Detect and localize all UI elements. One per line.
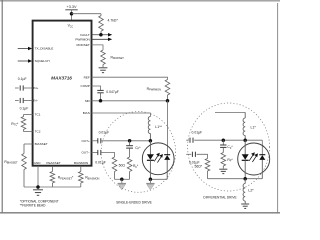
svg-text:**FERRITE BEAD: **FERRITE BEAD xyxy=(20,204,46,208)
svg-text:BIASMON: BIASMON xyxy=(74,161,88,165)
pin PWRMON label xyxy=(75,37,89,41)
laser emission arrows single-ended xyxy=(154,153,163,163)
pin PWRMON output arrow xyxy=(92,38,113,41)
label 4.7kOhm xyxy=(108,18,119,22)
pin FAULT label xyxy=(80,33,90,37)
inductor L2 differential xyxy=(243,179,245,204)
resistor RF single-ended xyxy=(127,157,132,179)
pin IN- label xyxy=(33,99,38,103)
svg-text:CF*: CF* xyxy=(227,145,233,150)
svg-text:OUT+: OUT+ xyxy=(81,139,90,143)
svg-text:+3.3V: +3.3V xyxy=(66,5,76,9)
pin TX_DISABLE label xyxy=(35,47,54,51)
resistor 50 Ohm termination xyxy=(112,157,117,179)
label RBIASSET xyxy=(4,160,18,165)
pin GND label xyxy=(34,161,42,165)
svg-text:FAULT: FAULT xyxy=(80,33,90,37)
pin TC1 label xyxy=(35,113,41,117)
dashed circle differential drive xyxy=(188,103,270,191)
svg-text:MAX3716: MAX3716 xyxy=(51,76,72,81)
wire differential PD drop xyxy=(261,140,263,155)
pin BIAS wire xyxy=(92,113,151,117)
node differential CF junction xyxy=(222,138,226,142)
svg-text:PWRMON: PWRMON xyxy=(75,37,89,41)
label RF* differential xyxy=(227,158,233,163)
svg-text:IN−: IN− xyxy=(33,99,38,103)
pin VCC label xyxy=(68,24,74,29)
label OUT+ cap 0.01uF xyxy=(99,131,110,135)
wire VCC feeder differential xyxy=(215,111,245,113)
label CF* differential xyxy=(227,145,233,150)
label C3 0.047uF xyxy=(106,90,119,94)
svg-text:RTC*: RTC* xyxy=(11,122,19,127)
pin SQUELCH label xyxy=(35,59,50,63)
svg-text:0.01µF: 0.01µF xyxy=(99,131,110,135)
node GND junction xyxy=(36,185,40,189)
svg-text:RF*: RF* xyxy=(133,164,139,169)
node +3.3V junction xyxy=(70,12,74,16)
laser package circle differential xyxy=(238,143,270,175)
svg-text:0.1µF: 0.1µF xyxy=(18,77,27,81)
svg-text:RMODSET: RMODSET xyxy=(111,55,125,60)
ground main GND symbol xyxy=(33,190,43,196)
dashed circle single-ended drive xyxy=(101,111,175,192)
footnote optional component xyxy=(20,199,59,203)
resistor RMODSET xyxy=(92,45,106,67)
svg-text:MD: MD xyxy=(85,99,91,103)
pin BIASMON label xyxy=(74,161,88,165)
power +3.3V supply symbol xyxy=(65,5,77,10)
label OUT- cap 0.01uF xyxy=(95,161,106,165)
label 0.01uF differential bottom xyxy=(189,160,200,164)
svg-text:50Ω: 50Ω xyxy=(119,163,126,167)
resistor RF differential xyxy=(221,153,226,169)
wire RF 50ohm bottoms xyxy=(115,178,130,180)
monitor photodiode D2 xyxy=(164,155,170,180)
svg-text:0.047µF: 0.047µF xyxy=(106,90,119,94)
pin OUT+ label xyxy=(81,139,90,143)
label RPWRMON xyxy=(147,87,161,92)
pin IN+ label xyxy=(33,86,38,90)
pin MD wire xyxy=(92,100,168,102)
node OUT+ CF junction xyxy=(128,139,132,143)
label 56 Ohm xyxy=(195,164,203,168)
pin GND wire xyxy=(37,166,39,190)
pin OUT- wire and capacitor 0.01uF xyxy=(92,150,115,157)
svg-text:RBIASSET: RBIASSET xyxy=(4,160,18,165)
resistor RBIASSET xyxy=(22,144,27,187)
svg-text:56Ω*: 56Ω* xyxy=(195,164,203,168)
label 0.01uF differential top xyxy=(192,131,203,135)
node OUT+ laser junction xyxy=(149,139,153,143)
resistor RPWRMON xyxy=(165,80,170,101)
label C1 0.1uF xyxy=(18,77,27,81)
pin BIASSET wire xyxy=(24,143,33,145)
wire L1 to laser anode xyxy=(149,134,151,141)
label L2* xyxy=(248,189,254,193)
label L1* xyxy=(251,125,257,129)
chassis ground termination xyxy=(118,184,126,190)
svg-text:TC1: TC1 xyxy=(35,113,41,117)
pin TC1 wire xyxy=(24,114,33,116)
svg-text:4.7kΩ*: 4.7kΩ* xyxy=(108,18,119,22)
caption single-ended drive xyxy=(116,201,153,205)
label C2 0.1uF xyxy=(20,106,29,110)
wire MD to photodiode xyxy=(167,101,169,155)
capacitor 0.01uF differential top xyxy=(186,138,262,143)
svg-text:RPEAKSET*: RPEAKSET* xyxy=(58,176,74,181)
laser diode differential xyxy=(242,140,249,179)
svg-text:L1*: L1* xyxy=(251,125,257,129)
pin COMP label xyxy=(81,84,90,88)
laser emission arrows differential xyxy=(249,152,258,162)
svg-text:0.01µF: 0.01µF xyxy=(192,131,203,135)
label RF* xyxy=(133,164,139,169)
label RMODSET xyxy=(111,55,125,60)
pin FAULT output arrow xyxy=(92,33,113,36)
resistor 4.7kOhm pullup xyxy=(99,14,104,35)
pin MODSET label xyxy=(77,43,90,47)
laser package circle single-ended xyxy=(142,143,174,175)
capacitor 0.01uF differential bottom xyxy=(186,152,207,159)
node termination ground junction xyxy=(120,178,124,182)
ground L2 differential xyxy=(241,204,249,208)
wire to chassis ground left xyxy=(121,179,123,183)
resistor RBIASMON xyxy=(79,166,84,187)
ground RMODSET symbol xyxy=(99,68,108,73)
label CF* xyxy=(135,146,141,151)
figure border frame xyxy=(0,0,280,213)
monitor photodiode differential xyxy=(259,155,265,179)
svg-text:RF*: RF* xyxy=(227,158,233,163)
pin MD label xyxy=(85,99,91,103)
resistor 56 Ohm differential xyxy=(205,159,210,179)
pin TX_DISABLE input arrow xyxy=(18,47,33,50)
svg-text:MODSET: MODSET xyxy=(77,43,90,47)
pin TC2 wire xyxy=(24,131,33,133)
svg-text:OUT−: OUT− xyxy=(81,151,90,155)
resistor RPEAKSET xyxy=(50,166,55,187)
svg-text:0.01µF: 0.01µF xyxy=(95,161,106,165)
label RPEAKSET xyxy=(58,176,74,181)
pin TC2 label xyxy=(35,130,41,134)
svg-text:L2*: L2* xyxy=(248,189,254,193)
svg-text:PEAKSET: PEAKSET xyxy=(46,161,60,165)
svg-text:BIASSET: BIASSET xyxy=(35,142,48,146)
node differential laser junction xyxy=(243,138,247,142)
pin SQUELCH input arrow xyxy=(18,59,33,62)
svg-text:SINGLE-ENDED DRIVE: SINGLE-ENDED DRIVE xyxy=(116,201,153,205)
svg-text:REF: REF xyxy=(84,75,90,79)
pin REF wire xyxy=(92,77,168,79)
svg-text:VCC: VCC xyxy=(68,24,74,29)
svg-text:CF*: CF* xyxy=(135,146,141,151)
wire +3.3V rail to R1 xyxy=(72,13,102,15)
inductor L1 differential xyxy=(243,112,245,140)
capacitor C3 0.047uF on COMP xyxy=(97,90,103,100)
svg-text:L1**: L1** xyxy=(155,125,162,129)
caption differential drive xyxy=(203,195,236,199)
wire to chassis ground right xyxy=(149,179,151,183)
svg-text:RPWRMON: RPWRMON xyxy=(147,87,161,92)
pin OUT+ wire and capacitor 0.01uF xyxy=(92,138,151,143)
wire +3.3V to VCC pin xyxy=(71,10,73,21)
wire laser cathode rail xyxy=(150,178,167,180)
IC U1 MAX3716 laser driver body xyxy=(33,21,92,166)
node COMP cap junction xyxy=(99,99,103,103)
svg-text:DIFFERENTIAL DRIVE: DIFFERENTIAL DRIVE xyxy=(203,195,236,199)
label RTC xyxy=(11,122,19,127)
capacitor CF differential xyxy=(220,140,226,152)
pin BIAS label xyxy=(83,111,90,115)
svg-text:RBIASMON: RBIASMON xyxy=(85,176,99,181)
node MD monitor junction xyxy=(166,99,170,103)
capacitor CF single-ended xyxy=(126,141,133,157)
chassis ground laser xyxy=(146,184,154,190)
pin COMP wire xyxy=(92,86,101,90)
label MAX3716 xyxy=(51,76,72,81)
pin PEAKSET label xyxy=(46,161,60,165)
pin OUT- label xyxy=(81,151,90,155)
laser diode D1 xyxy=(147,141,154,180)
pin REF label xyxy=(84,75,90,79)
node laser ground junction xyxy=(149,178,153,182)
inductor L1 ferrite bead xyxy=(148,117,150,134)
wire 56ohm to cathode xyxy=(208,178,263,180)
label RBIASMON xyxy=(85,176,99,181)
footnote ferrite bead xyxy=(20,204,46,208)
svg-text:COMP: COMP xyxy=(81,84,90,88)
svg-text:IN+: IN+ xyxy=(33,86,38,90)
node differential cathode junction xyxy=(243,177,247,181)
pin BIASSET label xyxy=(35,142,48,146)
label 50 Ohm xyxy=(119,163,126,167)
capacitor C2 0.1uF on IN- xyxy=(15,98,33,103)
ground RF differential xyxy=(219,169,227,173)
svg-text:0.1µF: 0.1µF xyxy=(20,106,29,110)
wire ground rail xyxy=(24,186,81,188)
svg-text:TC2: TC2 xyxy=(35,130,41,134)
svg-text:TX_DISABLE: TX_DISABLE xyxy=(35,47,54,51)
capacitor C1 0.1uF on IN+ xyxy=(15,85,33,90)
svg-text:GND: GND xyxy=(34,161,42,165)
label L1** xyxy=(155,125,162,129)
svg-text:BIAS: BIAS xyxy=(83,111,90,115)
node FAULT pullup junction xyxy=(99,33,103,37)
resistor RTC between TC1 TC2 xyxy=(21,115,26,132)
svg-text:SQUELCH: SQUELCH xyxy=(35,59,50,63)
